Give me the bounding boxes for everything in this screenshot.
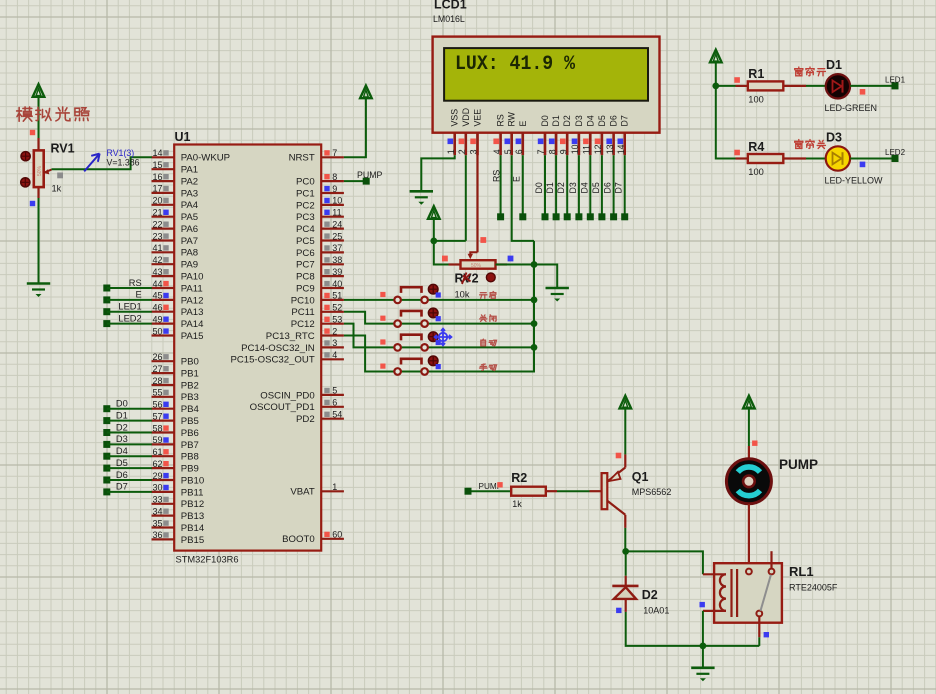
R1 reference label	[748, 67, 764, 81]
svg-text:PD2: PD2	[296, 414, 315, 425]
node junction bus/button1	[531, 297, 538, 304]
svg-text:PB3: PB3	[181, 392, 199, 403]
svg-text:8: 8	[332, 172, 337, 182]
wire LCD VEE to RV2 wiper	[468, 133, 478, 260]
wire RV1 wiper to U1 pin 14 PA0	[52, 157, 152, 169]
terminal D2 at U1 pin 58	[103, 422, 152, 436]
PUMP actuator label	[779, 457, 818, 472]
svg-text:11: 11	[332, 208, 341, 218]
wire ground bus vertical	[533, 241, 535, 372]
svg-text:23: 23	[152, 231, 162, 241]
button B4 click dot	[428, 356, 438, 366]
svg-text:D5: D5	[597, 115, 607, 126]
svg-text:62: 62	[152, 459, 162, 469]
svg-text:PC11: PC11	[291, 307, 314, 318]
svg-text:D4: D4	[116, 446, 128, 456]
power symbol on NRST	[360, 86, 372, 99]
svg-text:LCD1: LCD1	[434, 0, 467, 12]
svg-text:MPS6562: MPS6562	[632, 487, 672, 497]
svg-text:11: 11	[582, 145, 592, 154]
svg-text:LUX: 41.9 %: LUX: 41.9 %	[455, 53, 576, 76]
terminal PUMP at U1 pin8 PC0	[344, 170, 383, 184]
R4 value label 100	[748, 167, 764, 177]
terminal D1 at U1 pin 57	[103, 410, 152, 424]
svg-text:45: 45	[152, 291, 162, 301]
wire U1 pin52 PC11 to button2	[344, 312, 394, 324]
svg-text:PUMP: PUMP	[779, 457, 818, 472]
resistor RV2 potentiometer body	[449, 260, 508, 269]
red marker square on motor top lead	[752, 441, 757, 446]
wire RV2 right to bus	[496, 264, 535, 266]
wire LCD E to terminal	[522, 155, 524, 213]
U1 right pin state squares	[324, 150, 329, 537]
wires LCD D0-D7 down to terminals	[545, 155, 625, 213]
blue marker square on RV1 bottom wire	[30, 201, 35, 206]
terminal D4 at U1 pin 61	[103, 446, 152, 460]
svg-text:R2: R2	[511, 471, 527, 485]
svg-text:PC14-OSC32_IN: PC14-OSC32_IN	[241, 343, 315, 354]
blue marker square at relay common	[764, 632, 769, 637]
svg-text:RS: RS	[491, 170, 501, 182]
terminal RS at U1 pin 44	[103, 278, 152, 292]
svg-text:10: 10	[332, 196, 342, 206]
svg-text:PC4: PC4	[296, 224, 315, 235]
svg-text:V=1.386: V=1.386	[107, 157, 140, 167]
R1 value label 100	[748, 95, 764, 105]
svg-text:PB6: PB6	[181, 428, 199, 439]
svg-text:16: 16	[152, 172, 162, 182]
wire D3 to terminal LED2	[850, 158, 892, 160]
LCD1 value label LM016L	[433, 14, 465, 24]
svg-text:LED2: LED2	[118, 314, 141, 324]
svg-text:PA4: PA4	[181, 200, 199, 211]
RL1 reference label	[789, 564, 814, 579]
wire bus to ground symbol	[534, 265, 557, 289]
wire RV1 bottom to ground	[38, 198, 40, 284]
red marker square at PUMP text	[497, 482, 502, 487]
wire Q1 emitter to power	[624, 409, 626, 455]
RV2 adjust arrows (red)	[462, 273, 496, 285]
svg-text:43: 43	[152, 267, 162, 277]
red marker square on RV1 top wire	[30, 130, 35, 135]
svg-text:53: 53	[332, 315, 342, 325]
terminal LED2 at U1 pin 49	[103, 314, 152, 328]
button B3 contacts	[394, 344, 535, 351]
svg-text:PC3: PC3	[296, 212, 315, 223]
svg-text:D2: D2	[116, 422, 128, 432]
button B3 state squares	[380, 339, 441, 345]
svg-text:PA8: PA8	[181, 248, 198, 259]
LCD1 reference label	[434, 0, 467, 12]
svg-text:PB2: PB2	[181, 380, 199, 391]
wire VDD rail to power junction	[434, 240, 466, 242]
svg-text:PB7: PB7	[181, 440, 199, 451]
D3 reference label	[826, 131, 842, 145]
svg-text:R4: R4	[748, 140, 764, 154]
blue marker square left of D2	[616, 608, 621, 613]
power symbol feeding VDD and RV2	[428, 206, 440, 241]
D3 value label LED-YELLOW	[825, 176, 884, 186]
svg-text:58: 58	[152, 423, 162, 433]
transistor Q1 MPS6562	[602, 454, 626, 528]
RV1 value label 1k	[52, 184, 62, 194]
LED D1 (green, off)	[806, 74, 850, 98]
svg-text:LED1: LED1	[118, 302, 141, 312]
svg-text:5: 5	[332, 386, 337, 396]
blue marker square right of RV2	[508, 256, 514, 262]
wire bottom junction to ground	[702, 646, 704, 668]
button B3 label 自动	[481, 339, 497, 346]
svg-text:PB5: PB5	[181, 416, 199, 427]
red marker square left of RV2	[442, 256, 448, 262]
text 窗帘开 (red)	[795, 67, 826, 76]
svg-text:D0: D0	[540, 115, 550, 126]
svg-text:17: 17	[152, 184, 162, 194]
LCD1 pin numbers (rotated)	[446, 144, 626, 154]
svg-text:PB8: PB8	[181, 452, 199, 463]
U1 left pin state squares	[163, 150, 168, 538]
svg-text:PB1: PB1	[181, 369, 199, 380]
wire LCD RS to terminal	[500, 155, 502, 213]
U1 left pin stubs PA0-PB15	[152, 157, 175, 539]
svg-text:D5: D5	[591, 182, 601, 193]
svg-text:D0: D0	[116, 399, 128, 409]
wire LCD RW to ground bus	[512, 155, 534, 241]
svg-text:LED1: LED1	[885, 76, 906, 85]
button B2 state squares	[380, 316, 441, 322]
svg-text:PC13_RTC: PC13_RTC	[266, 331, 315, 342]
button B4 state squares	[380, 364, 441, 370]
wire collector junction to relay coil	[626, 551, 703, 574]
svg-text:PC2: PC2	[296, 200, 315, 211]
svg-text:D5: D5	[116, 458, 128, 468]
terminal D5 at U1 pin 62	[103, 458, 152, 472]
svg-text:RTE24005F: RTE24005F	[789, 583, 838, 593]
svg-text:34: 34	[152, 506, 162, 516]
svg-text:PA12: PA12	[181, 295, 204, 306]
ground below RV1	[27, 284, 50, 298]
svg-text:D6: D6	[609, 115, 619, 126]
terminal LED1 at U1 pin 46	[103, 302, 152, 316]
svg-text:41: 41	[152, 243, 162, 253]
node junction at power/VDD/RV2	[430, 238, 437, 245]
terminals D0-D7 below LCD	[542, 213, 629, 220]
svg-text:10k: 10k	[455, 290, 470, 300]
svg-text:PB11: PB11	[181, 487, 204, 498]
svg-text:7: 7	[536, 149, 546, 154]
svg-text:13: 13	[605, 144, 615, 154]
power symbol VCC above RV1	[33, 84, 45, 138]
svg-text:LED2: LED2	[885, 148, 906, 157]
button B2 actuator bracket	[401, 311, 422, 317]
D1 value label LED-GREEN	[825, 103, 878, 113]
wire Q1 collector down	[624, 528, 626, 552]
terminal D6 at U1 pin 29	[103, 470, 152, 484]
D2 value label 10A01	[643, 606, 669, 616]
LCD1 body	[433, 37, 660, 133]
svg-text:15: 15	[152, 160, 162, 170]
svg-text:49: 49	[152, 314, 162, 324]
button B2 contacts	[394, 320, 535, 327]
svg-text:60: 60	[332, 530, 342, 540]
node junction R1/R4 feed	[712, 83, 719, 90]
svg-text:42: 42	[152, 255, 162, 265]
svg-text:OSCOUT_PD1: OSCOUT_PD1	[250, 402, 315, 413]
button B3 actuator bracket	[401, 335, 422, 341]
svg-text:61: 61	[152, 447, 162, 457]
net label E (rotated)	[512, 176, 522, 182]
svg-text:RL1: RL1	[789, 564, 814, 579]
svg-text:D1: D1	[545, 182, 555, 193]
svg-text:56: 56	[152, 400, 162, 410]
relay RL1 body	[714, 563, 782, 623]
svg-text:14: 14	[152, 148, 162, 158]
wire junction to R1	[716, 85, 736, 87]
svg-text:D3: D3	[574, 115, 584, 126]
button B4 label 手动	[480, 364, 497, 371]
wire PUMP terminal to R2	[472, 490, 512, 492]
svg-text:12: 12	[593, 144, 603, 154]
text 模拟光照	[17, 107, 89, 121]
svg-text:RW: RW	[507, 111, 517, 126]
U1 reference label	[175, 130, 191, 144]
button B2 label 关闭	[480, 315, 496, 322]
svg-text:PA0-WKUP: PA0-WKUP	[181, 153, 230, 164]
ground below relay	[691, 668, 714, 682]
svg-text:VBAT: VBAT	[290, 487, 314, 498]
svg-text:33: 33	[152, 495, 162, 505]
svg-text:PA14: PA14	[181, 319, 204, 330]
svg-text:52: 52	[332, 303, 342, 313]
node junction bus/button2	[531, 320, 538, 327]
svg-text:2: 2	[457, 149, 467, 154]
svg-text:PC9: PC9	[296, 283, 315, 294]
svg-text:PB14: PB14	[181, 523, 205, 534]
svg-text:9: 9	[332, 184, 337, 194]
Q1 value label MPS6562	[632, 487, 672, 497]
terminal E at U1 pin 45	[103, 290, 152, 304]
svg-text:PC7: PC7	[296, 260, 315, 271]
wire LCD VDD down to power rail	[465, 155, 467, 241]
svg-text:PC6: PC6	[296, 248, 315, 259]
wire coil bottom to bottom rail	[702, 611, 704, 646]
svg-text:R1: R1	[748, 67, 764, 81]
svg-text:1k: 1k	[52, 184, 62, 194]
svg-text:14: 14	[616, 144, 626, 154]
resistor R2	[511, 487, 601, 496]
svg-text:D1: D1	[826, 58, 842, 72]
red marker square on Q1 emitter wire	[616, 453, 622, 459]
svg-text:D3: D3	[826, 131, 842, 145]
svg-text:VDD: VDD	[461, 108, 471, 127]
svg-text:PB9: PB9	[181, 464, 199, 475]
red marker square left of R4	[734, 150, 740, 156]
U1 left pin name labels	[181, 153, 230, 546]
svg-text:54: 54	[332, 410, 342, 420]
svg-text:D1: D1	[116, 410, 128, 420]
button B1 click dot	[428, 284, 438, 294]
terminal E below LCD	[519, 213, 526, 220]
U1 right pin name labels	[230, 153, 315, 546]
LCD1 screen	[444, 48, 648, 101]
svg-text:VSS: VSS	[450, 109, 460, 127]
svg-text:PC0: PC0	[296, 177, 315, 188]
svg-text:D7: D7	[116, 482, 128, 492]
wire U1 pin7 NRST to power	[344, 98, 366, 157]
svg-text:5: 5	[503, 149, 513, 154]
svg-text:22: 22	[152, 219, 162, 229]
RL1 contact pins	[746, 551, 774, 637]
Q1 reference label	[632, 470, 649, 484]
svg-text:PB0: PB0	[181, 357, 199, 368]
svg-text:PC5: PC5	[296, 236, 315, 247]
wire power junction down to RV2 left	[434, 241, 449, 265]
svg-text:8: 8	[547, 149, 557, 154]
U1 left pin numbers	[152, 148, 162, 540]
svg-text:37: 37	[332, 243, 342, 253]
terminal RS below LCD	[497, 213, 504, 220]
svg-text:PC12: PC12	[291, 319, 315, 330]
svg-text:D1: D1	[551, 115, 561, 126]
power symbol above R1	[710, 50, 722, 86]
svg-text:9: 9	[558, 149, 568, 154]
svg-text:40: 40	[332, 279, 342, 289]
svg-text:PUMP: PUMP	[357, 170, 383, 180]
voltage probe RV1(3)	[84, 154, 99, 172]
svg-text:Q1: Q1	[632, 470, 649, 484]
wire U1 pin2 PC13 to button4	[344, 336, 394, 372]
U1 value label STM32F103R6	[176, 555, 239, 565]
svg-text:PA15: PA15	[181, 331, 204, 342]
ground for RV2/RW bus	[546, 288, 569, 302]
svg-text:D2: D2	[642, 588, 658, 602]
svg-text:D3: D3	[568, 182, 578, 193]
RL1 switch blade	[761, 575, 771, 611]
node junction bus/RV2	[531, 261, 538, 268]
svg-text:PB10: PB10	[181, 475, 204, 486]
blue marker square right of D3	[860, 162, 866, 168]
U1 right pin stubs NRST/PC/PD	[321, 157, 344, 539]
svg-text:35: 35	[152, 518, 162, 528]
terminal D0 at U1 pin 56	[103, 399, 152, 413]
svg-text:LED-GREEN: LED-GREEN	[825, 103, 878, 113]
svg-text:PA2: PA2	[181, 177, 198, 188]
svg-text:D7: D7	[614, 182, 624, 193]
svg-text:57: 57	[152, 411, 162, 421]
D2 reference label	[642, 588, 658, 602]
svg-text:55: 55	[152, 388, 162, 398]
svg-text:50%: 50%	[37, 165, 43, 176]
node junction Q1 collector	[622, 548, 629, 555]
svg-text:4: 4	[332, 350, 337, 360]
net labels D0-D7 (rotated)	[534, 182, 624, 193]
text 窗帘关 (red)	[795, 140, 826, 149]
RV1 reference label	[51, 142, 75, 156]
svg-text:PB13: PB13	[181, 511, 204, 522]
R2 reference label	[511, 471, 527, 485]
diode D2 10A01	[612, 576, 638, 612]
ground below LCD VSS	[410, 191, 433, 205]
wire LCD VSS to ground	[421, 155, 454, 191]
wire junction down to D2	[625, 551, 627, 575]
svg-text:44: 44	[152, 279, 162, 289]
LCD1 pin name labels (rotated)	[450, 108, 630, 127]
wire junction down to R4 row	[716, 86, 736, 159]
wire motor to relay contact	[748, 504, 750, 569]
wire U1 pin51 PC10 to button1	[344, 299, 394, 301]
R2 value label 1k	[512, 499, 522, 509]
R4 reference label	[748, 140, 764, 154]
svg-text:PC1: PC1	[296, 188, 315, 199]
svg-text:D4: D4	[585, 115, 595, 126]
svg-text:LM016L: LM016L	[433, 14, 465, 24]
svg-text:24: 24	[332, 219, 342, 229]
svg-text:PA1: PA1	[181, 165, 198, 176]
svg-text:100: 100	[748, 95, 764, 105]
svg-text:1: 1	[446, 149, 456, 154]
button B3 click dot	[428, 332, 438, 342]
RV2 reference label	[455, 272, 479, 286]
svg-text:1: 1	[332, 482, 337, 492]
svg-text:25: 25	[332, 231, 342, 241]
svg-text:6: 6	[514, 149, 524, 154]
svg-text:PB15: PB15	[181, 535, 204, 546]
svg-text:50%: 50%	[471, 263, 482, 269]
svg-text:30: 30	[152, 483, 162, 493]
svg-text:27: 27	[152, 364, 162, 374]
svg-text:PA13: PA13	[181, 307, 204, 318]
terminal D3 at U1 pin 59	[103, 434, 152, 448]
svg-text:PC15-OSC32_OUT: PC15-OSC32_OUT	[230, 355, 314, 366]
svg-text:39: 39	[332, 267, 342, 277]
svg-text:2: 2	[332, 326, 337, 336]
svg-text:RS: RS	[496, 114, 506, 126]
svg-text:7: 7	[332, 148, 337, 158]
red marker square on VEE wire	[480, 237, 486, 243]
svg-text:PA9: PA9	[181, 260, 198, 271]
svg-text:D3: D3	[116, 434, 128, 444]
red marker square right of D1	[860, 89, 866, 95]
svg-text:PA11: PA11	[181, 283, 203, 294]
LCD1 pin stubs 1-14	[455, 133, 625, 156]
LCD1 pin state squares	[448, 139, 624, 145]
wire R2 to Q1 base	[557, 490, 590, 492]
svg-text:D0: D0	[534, 182, 544, 193]
svg-text:BOOT0: BOOT0	[282, 534, 315, 545]
svg-text:4: 4	[492, 149, 502, 154]
resistor RV1 potentiometer body	[34, 138, 44, 198]
svg-text:D2: D2	[556, 182, 566, 193]
svg-text:6: 6	[332, 398, 337, 408]
svg-text:21: 21	[152, 208, 162, 218]
svg-text:OSCIN_PD0: OSCIN_PD0	[260, 390, 314, 401]
blue marker square at coil bottom pin	[700, 602, 705, 607]
button B1 actuator bracket	[401, 287, 422, 293]
svg-text:51: 51	[332, 291, 342, 301]
svg-text:U1: U1	[175, 130, 191, 144]
svg-text:PA6: PA6	[181, 224, 198, 235]
svg-text:E: E	[135, 290, 141, 300]
svg-text:10A01: 10A01	[643, 606, 669, 616]
svg-text:36: 36	[152, 530, 162, 540]
svg-text:100: 100	[748, 167, 764, 177]
LED D3 (yellow)	[806, 146, 850, 170]
motor PUMP actuator	[726, 446, 771, 504]
RL1 coil	[703, 569, 737, 617]
probe label RV1(3)	[107, 148, 135, 158]
button B2 click dot	[428, 308, 438, 318]
svg-text:VEE: VEE	[473, 109, 483, 127]
